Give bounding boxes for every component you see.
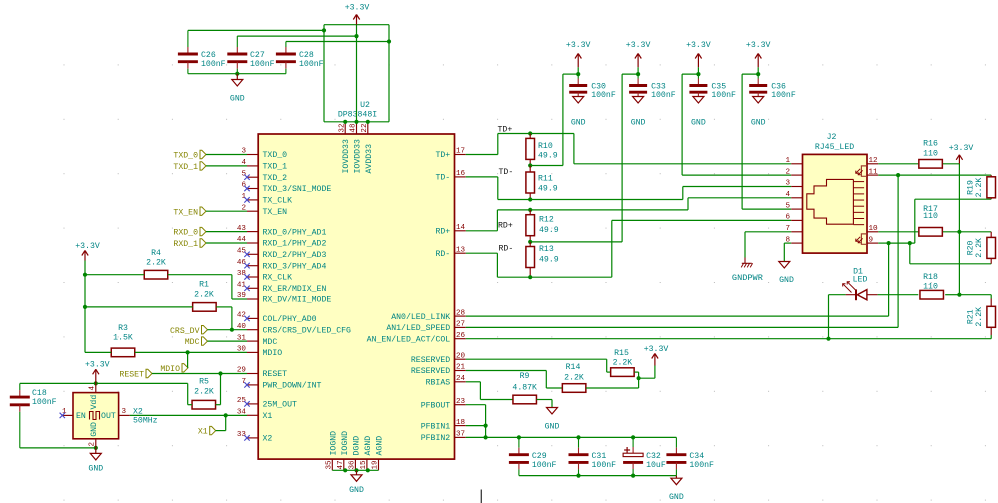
wire: [945, 294, 959, 296]
wire: [20, 382, 188, 384]
capacitor C31: [569, 437, 617, 475]
svg-text:100nF: 100nF: [250, 60, 275, 69]
IC U2: [258, 134, 454, 459]
resistor R1: [193, 281, 217, 312]
junction: [528, 240, 532, 244]
wire: [466, 253, 498, 277]
svg-text:RXD_1/PHY_AD2: RXD_1/PHY_AD2: [263, 239, 327, 249]
svg-text:+3.3V: +3.3V: [644, 345, 669, 354]
svg-text:MDC: MDC: [185, 338, 200, 347]
svg-text:GND: GND: [88, 465, 103, 474]
pin 4 Vdd: [89, 383, 97, 392]
pin 7: [785, 225, 802, 233]
pin 1: [785, 157, 802, 165]
capacitor C26: [178, 30, 226, 73]
svg-text:AGND: AGND: [364, 436, 373, 456]
svg-text:COL/PHY_AD0: COL/PHY_AD0: [263, 314, 317, 324]
svg-text:17: 17: [456, 148, 465, 156]
junction: [484, 424, 488, 440]
wire: [466, 436, 486, 438]
wire: [878, 163, 918, 165]
svg-text:GND: GND: [571, 118, 586, 127]
wire: [497, 209, 688, 211]
svg-text:14: 14: [456, 224, 466, 232]
pin 42 COL/PHY_AD0: [237, 312, 317, 325]
pin 43 RXD_0/PHY_AD1: [237, 225, 327, 238]
svg-text:2.2K: 2.2K: [613, 359, 633, 368]
power +3.3V: [626, 41, 651, 74]
wire: [216, 307, 232, 330]
svg-text:X1: X1: [263, 412, 273, 421]
junction: [528, 197, 532, 201]
svg-text:R16: R16: [923, 139, 938, 148]
svg-text:2.2K: 2.2K: [975, 238, 984, 258]
svg-text:TXD_1: TXD_1: [173, 163, 198, 172]
wire: [225, 415, 227, 430]
svg-text:GND: GND: [90, 422, 99, 437]
svg-text:IOGND: IOGND: [329, 431, 338, 456]
svg-text:3: 3: [785, 180, 790, 188]
resistor R3: [111, 324, 135, 357]
svg-text:GNDPWR: GNDPWR: [732, 273, 763, 283]
net label RXD_1: [173, 239, 247, 249]
power +3.3V: [644, 345, 669, 365]
net label MDC: [185, 337, 247, 347]
junction: [517, 435, 635, 439]
pin 37 PFBIN2: [421, 431, 466, 444]
pin 26 AN_EN/LED_ACT/COL: [367, 332, 466, 345]
svg-text:RXD_1: RXD_1: [173, 240, 198, 249]
svg-text:RXD_0/PHY_AD1: RXD_0/PHY_AD1: [263, 227, 327, 237]
svg-text:TXD_1: TXD_1: [263, 163, 288, 172]
svg-text:RX_CLK: RX_CLK: [263, 274, 293, 283]
svg-text:19: 19: [372, 460, 380, 470]
svg-text:CRS/CRS_DV/LED_CFG: CRS/CRS_DV/LED_CFG: [263, 325, 352, 335]
svg-text:PFBOUT: PFBOUT: [421, 401, 451, 410]
wire: [466, 359, 611, 372]
pin 6 TXD_3/SNI_MODE: [241, 182, 331, 195]
wire: [188, 383, 192, 404]
wire: [332, 469, 378, 471]
node U2 reference: [338, 101, 377, 119]
svg-text:R4: R4: [151, 249, 161, 258]
junction: [83, 273, 87, 309]
diode D1: [843, 268, 878, 301]
resistor R12: [526, 210, 559, 242]
oscillator X2 internals: [76, 395, 116, 437]
junction: [218, 371, 222, 375]
svg-text:12: 12: [869, 157, 879, 165]
capacitor C36: [749, 74, 796, 100]
pin 3 OUT: [119, 408, 130, 416]
resistor R16: [919, 139, 943, 168]
svg-text:MDIO: MDIO: [160, 365, 180, 374]
net label RESET: [119, 369, 247, 379]
net label RD-: [499, 244, 514, 253]
resistor R5: [192, 377, 216, 409]
svg-text:RXD_2/PHY_AD3: RXD_2/PHY_AD3: [263, 250, 327, 260]
net label CRS_DV: [170, 326, 247, 336]
svg-text:RESERVED: RESERVED: [411, 356, 450, 365]
wire: [745, 232, 791, 258]
pin 45 RXD_2/PHY_AD3: [237, 248, 327, 261]
pin 20 RESERVED: [411, 352, 466, 365]
net label TXD_0: [173, 150, 247, 160]
wire: [356, 25, 358, 122]
wire: [878, 242, 888, 244]
pin 17 TD+: [435, 148, 465, 161]
junction: [576, 474, 635, 478]
wire: [323, 25, 325, 122]
svg-text:C28: C28: [299, 51, 314, 60]
svg-text:4.87K: 4.87K: [512, 384, 537, 393]
pin 21 RESERVED: [411, 364, 466, 377]
svg-text:21: 21: [456, 364, 466, 372]
wire: [682, 74, 791, 175]
wire: [85, 274, 144, 276]
svg-text:C27: C27: [250, 51, 265, 60]
wire: [85, 351, 111, 353]
svg-text:50MHz: 50MHz: [133, 417, 158, 426]
svg-text:47: 47: [337, 460, 345, 469]
pin 46 RXD_3/PHY_AD4: [237, 259, 327, 272]
svg-text:23: 23: [456, 398, 466, 406]
power +3.3V: [949, 144, 974, 164]
svg-text:J2: J2: [827, 133, 837, 142]
pin 9: [867, 236, 878, 244]
junction: [887, 241, 891, 245]
svg-text:C26: C26: [201, 51, 216, 60]
capacitor C33: [629, 74, 676, 100]
pin 27 AN1/LED_SPEED: [386, 321, 465, 334]
wire: [574, 134, 791, 164]
pin 29 RESET: [237, 367, 287, 380]
svg-text:AGND: AGND: [376, 436, 385, 456]
ground: [751, 97, 766, 128]
capacitor C35: [689, 74, 736, 100]
junction: [322, 28, 326, 32]
svg-text:49.9: 49.9: [539, 226, 559, 235]
wire: [943, 231, 960, 233]
pin 4 TXD_1: [241, 159, 287, 172]
svg-text:3: 3: [122, 408, 127, 416]
power +3.3V: [85, 361, 110, 384]
svg-text:2.2K: 2.2K: [564, 373, 584, 382]
svg-text:MDC: MDC: [263, 338, 278, 347]
svg-text:MDIO: MDIO: [263, 349, 283, 358]
pin 35 IOGND: [326, 431, 339, 470]
svg-text:49.9: 49.9: [539, 256, 559, 265]
svg-text:+3.3V: +3.3V: [75, 242, 100, 251]
junction: [908, 241, 912, 245]
wire: [324, 24, 389, 26]
resistor R14: [562, 363, 586, 392]
pin 31 MDC: [237, 334, 277, 347]
svg-text:37: 37: [456, 431, 465, 439]
pin 25 25M_OUT: [237, 397, 297, 410]
power +3.3V: [686, 41, 711, 74]
svg-text:RD+: RD+: [435, 228, 450, 237]
net label X1: [198, 426, 226, 436]
svg-text:48: 48: [350, 123, 358, 133]
wire: [466, 134, 498, 155]
pin 40 CRS/CRS_DV/LED_CFG: [237, 323, 351, 336]
pin 22 AVDD33: [361, 122, 374, 174]
wire: [466, 405, 486, 438]
pin 3: [785, 180, 802, 188]
svg-text:+3.3V: +3.3V: [746, 41, 771, 50]
junction: [528, 275, 532, 279]
pin 41 RX_ER/MDIX_EN: [237, 282, 327, 295]
svg-text:R18: R18: [923, 273, 938, 282]
svg-text:18: 18: [456, 419, 466, 427]
junction: [387, 39, 391, 43]
capacitor C27: [227, 36, 274, 74]
wire: [388, 25, 390, 122]
wire: [530, 74, 578, 165]
svg-text:7: 7: [241, 378, 246, 386]
svg-text:5: 5: [241, 170, 246, 178]
capacitor C34: [666, 437, 714, 475]
svg-text:TXD_0: TXD_0: [173, 152, 198, 161]
svg-text:+3.3V: +3.3V: [626, 41, 651, 50]
junction: [94, 446, 98, 450]
node X2 value: [133, 407, 158, 425]
capacitor C28: [276, 42, 324, 74]
wire: [466, 175, 898, 327]
pin 48 IOVDD33: [350, 122, 363, 174]
wire: [634, 372, 638, 378]
connector J2 body: [803, 154, 868, 253]
ground: [230, 74, 245, 104]
pin 7 PWR_DOWN/INT: [241, 378, 321, 391]
wire: [530, 74, 638, 242]
junction: [576, 72, 580, 76]
pin 4: [785, 191, 802, 199]
svg-text:110: 110: [923, 282, 938, 291]
svg-text:6: 6: [785, 214, 790, 222]
svg-text:13: 13: [456, 246, 466, 254]
junction: [957, 230, 961, 297]
wire: [466, 425, 486, 427]
svg-text:CRS_DV: CRS_DV: [170, 327, 200, 336]
junction: [636, 72, 640, 76]
pin 10: [867, 225, 878, 233]
ground: [631, 97, 646, 128]
svg-text:TX_EN: TX_EN: [173, 208, 198, 217]
wire: [85, 306, 193, 308]
pin 14 RD+: [435, 224, 465, 237]
node J2 reference: [815, 133, 854, 152]
svg-text:R10: R10: [538, 142, 553, 151]
svg-text:TXD_0: TXD_0: [263, 151, 288, 160]
pin 34 X1: [237, 409, 273, 422]
svg-text:16: 16: [456, 170, 466, 178]
svg-text:2: 2: [89, 442, 97, 447]
svg-text:2: 2: [785, 168, 790, 176]
svg-text:AN_EN/LED_ACT/COL: AN_EN/LED_ACT/COL: [367, 334, 451, 344]
svg-text:RX_ER/MDIX_EN: RX_ER/MDIX_EN: [263, 284, 327, 294]
wire: [498, 133, 574, 135]
junction: [230, 328, 234, 332]
svg-text:100nF: 100nF: [591, 91, 616, 100]
svg-text:EN: EN: [76, 412, 86, 421]
svg-text:GND: GND: [631, 118, 646, 127]
pin 5: [785, 202, 802, 210]
wire: [216, 374, 221, 405]
junction: [756, 72, 760, 76]
svg-text:15: 15: [360, 460, 368, 470]
svg-text:1: 1: [241, 193, 246, 201]
wire: [20, 447, 96, 449]
svg-text:GND: GND: [779, 276, 794, 285]
svg-text:LED: LED: [853, 276, 868, 285]
capacitor C32: [623, 437, 666, 475]
pin 16 TD-: [435, 170, 465, 183]
pin 8: [785, 236, 802, 244]
wire: [84, 261, 86, 353]
svg-text:24: 24: [456, 375, 466, 383]
wire: [537, 400, 552, 408]
pin 39 RX_DV/MII_MODE: [237, 292, 331, 305]
resistor R11: [526, 166, 558, 200]
svg-text:2.2K: 2.2K: [975, 307, 984, 327]
svg-text:GND: GND: [691, 118, 706, 127]
junction: [343, 120, 370, 124]
wire: [829, 294, 919, 296]
wire: [188, 73, 286, 75]
svg-text:RX_DV/MII_MODE: RX_DV/MII_MODE: [263, 295, 332, 305]
ground: [779, 262, 794, 286]
svg-text:27: 27: [456, 321, 465, 329]
wire: [466, 382, 513, 400]
svg-text:X2: X2: [263, 435, 273, 444]
wire: [486, 436, 677, 438]
svg-text:DP83848I: DP83848I: [338, 110, 377, 119]
wire: [878, 231, 918, 233]
svg-text:+3.3V: +3.3V: [566, 41, 591, 50]
power +3.3V: [345, 3, 370, 24]
svg-text:4: 4: [785, 191, 790, 199]
wire: [498, 199, 683, 201]
pin 47 IOGND: [337, 431, 350, 470]
ground: [349, 470, 364, 495]
svg-text:100nF: 100nF: [592, 461, 617, 470]
svg-text:100nF: 100nF: [771, 91, 796, 100]
svg-text:IOGND: IOGND: [341, 431, 350, 456]
svg-text:DGND: DGND: [352, 436, 361, 456]
svg-text:26: 26: [456, 332, 466, 340]
svg-text:110: 110: [923, 212, 938, 221]
svg-text:100nF: 100nF: [711, 91, 736, 100]
pin 5 TXD_2: [241, 170, 287, 183]
ground: [545, 408, 560, 432]
connector J2 led glyph: [856, 166, 867, 244]
pin 33 X2: [237, 431, 273, 444]
svg-text:TX_EN: TX_EN: [263, 208, 288, 217]
pin 2: [785, 168, 802, 176]
svg-text:+3.3V: +3.3V: [85, 361, 110, 370]
svg-text:U2: U2: [360, 101, 370, 110]
pin 44 RXD_1/PHY_AD2: [237, 236, 327, 249]
pin 11: [867, 168, 878, 176]
wire: [135, 351, 247, 353]
junction: [528, 163, 532, 167]
svg-text:R12: R12: [539, 215, 554, 224]
pin 36 DGND: [349, 436, 362, 471]
ground: [691, 97, 706, 128]
svg-text:TD-: TD-: [435, 174, 450, 183]
ground: [571, 97, 586, 128]
pin 24 RBIAS: [426, 375, 466, 388]
resistor R20: [967, 232, 996, 264]
svg-text:RD-: RD-: [435, 250, 450, 259]
svg-text:RXD_0: RXD_0: [173, 229, 198, 238]
wire: [466, 371, 562, 389]
svg-text:2.2K: 2.2K: [975, 178, 984, 198]
junction: [696, 72, 700, 76]
pin 1 EN: [60, 408, 73, 418]
pin 2 TX_EN: [241, 204, 287, 217]
net label TD-: [499, 168, 514, 177]
sheet border mark: [480, 490, 482, 503]
svg-text:PFBIN1: PFBIN1: [421, 422, 451, 431]
junction: [637, 376, 641, 380]
ground GNDPWR: [732, 258, 763, 283]
svg-text:C31: C31: [592, 452, 607, 461]
svg-text:PWR_DOWN/INT: PWR_DOWN/INT: [263, 381, 322, 391]
net label MDIO: [160, 352, 188, 374]
svg-text:AN1/LED_SPEED: AN1/LED_SPEED: [386, 323, 450, 333]
resistor R10: [526, 134, 558, 166]
svg-text:22: 22: [361, 123, 369, 133]
svg-text:9: 9: [869, 236, 874, 244]
svg-text:RBIAS: RBIAS: [426, 379, 451, 388]
wire: [943, 163, 960, 165]
svg-text:20: 20: [456, 352, 466, 360]
wire: [784, 243, 791, 261]
svg-text:OUT: OUT: [101, 412, 116, 421]
svg-text:R1: R1: [199, 281, 209, 290]
svg-text:+3.3V: +3.3V: [345, 3, 370, 12]
svg-text:TXD_2: TXD_2: [263, 174, 288, 183]
pin 18 PFBIN1: [421, 419, 466, 432]
svg-text:32: 32: [338, 123, 346, 133]
resistor R19: [967, 175, 996, 199]
wire: [168, 275, 247, 299]
junction: [896, 173, 900, 177]
wire: [612, 220, 791, 277]
wire: [959, 231, 991, 233]
svg-text:RESET: RESET: [119, 371, 144, 380]
wire: [237, 35, 356, 37]
junction: [186, 350, 190, 354]
svg-text:TXD_3/SNI_MODE: TXD_3/SNI_MODE: [263, 184, 332, 194]
pin 15 AGND: [360, 436, 373, 471]
svg-text:+3.3V: +3.3V: [949, 144, 974, 153]
svg-text:R11: R11: [538, 174, 553, 183]
svg-text:2.2K: 2.2K: [194, 387, 214, 396]
power +3.3V: [746, 41, 771, 74]
net label TD+: [498, 125, 513, 134]
svg-text:100nF: 100nF: [201, 60, 226, 69]
junction: [94, 381, 98, 385]
pin 2 GND: [89, 439, 97, 448]
svg-text:PFBIN2: PFBIN2: [421, 434, 451, 443]
svg-text:100nF: 100nF: [689, 461, 714, 470]
pin 23 PFBOUT: [421, 398, 466, 411]
wire: [586, 378, 639, 388]
